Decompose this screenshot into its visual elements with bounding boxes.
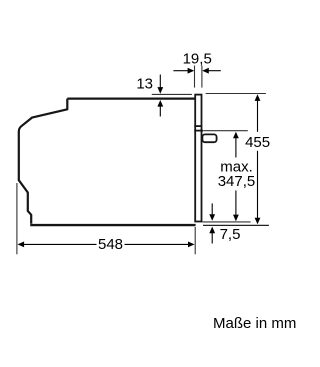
door trim line upper (194, 125, 202, 127)
arrow line left (173, 70, 189, 72)
dim line upper part (235, 138, 237, 158)
svg-text:Maße in mm: Maße in mm (213, 315, 296, 332)
dim line 455 lower part (257, 151, 259, 219)
arrow down 7,5 (211, 203, 213, 214)
extension line door bottom extended right (202, 221, 250, 223)
arrow up 13 (159, 106, 161, 116)
svg-text:19,5: 19,5 (183, 51, 212, 68)
dimension 19,5 (173, 66, 220, 88)
wire top panel line (67, 97, 194, 99)
arrow up 7,5 (211, 233, 213, 244)
door trim line lower (194, 130, 203, 132)
arrowhead max up (233, 132, 239, 139)
arrowhead 548 right (188, 242, 195, 248)
extension line door top extended right (206, 93, 266, 95)
svg-text:347,5: 347,5 (218, 173, 256, 190)
svg-text:7,5: 7,5 (220, 226, 241, 243)
svg-text:455: 455 (245, 134, 270, 151)
arrow down 13 (159, 75, 161, 88)
handle (202, 134, 216, 142)
oven body outline (19, 99, 196, 226)
extension line left of 19,5 (194, 66, 196, 88)
extension line right (194, 227, 196, 254)
arrow line right (207, 70, 220, 72)
extension line right of 19,5 (201, 66, 203, 88)
arrowhead 455 up (255, 94, 261, 101)
extension line door top extended left (152, 93, 192, 95)
dim line right segment (125, 243, 190, 245)
extension line body bottom extended right (203, 224, 269, 226)
arrowhead 548 left (18, 242, 25, 248)
arrowhead 455 down (255, 218, 261, 225)
arrowhead max down (233, 215, 239, 222)
arrowhead 19,5 right (202, 68, 209, 74)
wire body bottom (30, 224, 195, 226)
svg-text:13: 13 (136, 76, 153, 93)
wire body silhouette (19, 99, 68, 224)
dim line left segment (23, 243, 97, 245)
extension line trim bottom extended right (203, 130, 248, 132)
arrowhead 19,5 left (188, 68, 195, 74)
dim line lower part (235, 191, 237, 219)
door slab (195, 95, 201, 222)
dim line 455 (257, 101, 259, 132)
svg-text:548: 548 (98, 236, 123, 253)
extension line left (16, 183, 18, 254)
